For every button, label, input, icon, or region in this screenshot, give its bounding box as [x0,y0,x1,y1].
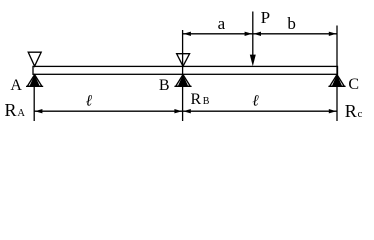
svg-text:ℓ: ℓ [252,92,259,109]
svg-text:a: a [218,14,226,33]
svg-text:P: P [261,8,270,27]
svg-text:b: b [287,14,296,33]
svg-text:B: B [159,77,170,94]
svg-text:A: A [10,77,22,94]
svg-text:ℓ: ℓ [86,93,93,110]
svg-text:C: C [348,76,359,93]
